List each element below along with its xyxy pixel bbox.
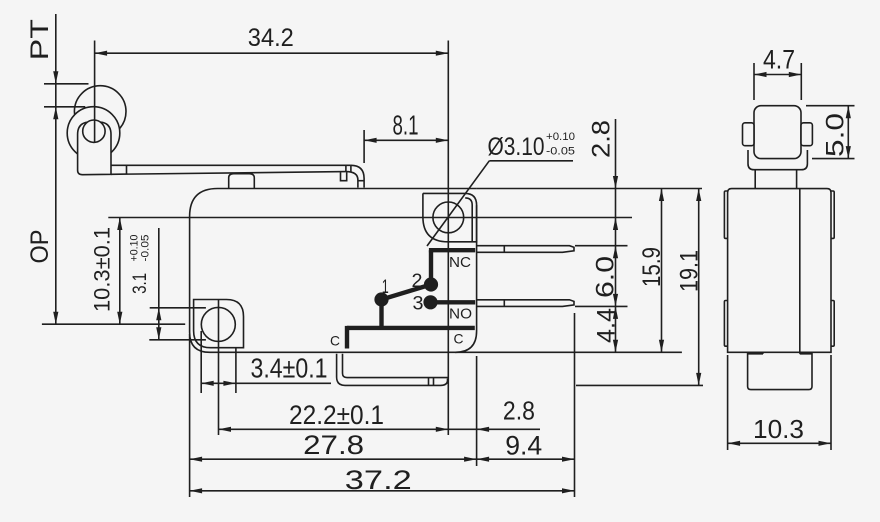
svg-text:3.4±0.1: 3.4±0.1 [251, 353, 328, 384]
mounting hole H1 (diam 3.10) [433, 202, 464, 233]
dimension 19.1 [676, 189, 704, 386]
svg-text:27.8: 27.8 [303, 430, 364, 460]
extension line terminal tips [574, 313, 576, 497]
leader line to hole H1 [427, 161, 489, 246]
label C left [330, 332, 340, 348]
svg-text:3: 3 [413, 293, 424, 314]
mounting ear (bottom left) [194, 300, 244, 348]
svg-text:C: C [330, 332, 340, 348]
wire node2 riser [429, 250, 433, 284]
label diameter 3.10 [488, 131, 576, 161]
extension line roller center [94, 41, 96, 144]
dimension 2.8 (top) [588, 119, 619, 246]
extension line NO bottom [575, 305, 628, 307]
svg-text:3.1: 3.1 [130, 273, 151, 294]
side body tab right top [831, 191, 834, 238]
side body tab left bottom [724, 301, 727, 347]
extension line side body left [727, 355, 729, 450]
svg-text:C: C [454, 330, 464, 346]
plunger pin under lever [341, 172, 347, 181]
svg-text:15.9: 15.9 [638, 247, 666, 287]
bracket bottom extension line [576, 384, 703, 386]
svg-text:6.0: 6.0 [592, 256, 620, 298]
svg-text:8.1: 8.1 [393, 110, 419, 141]
extension line roller right [800, 63, 802, 100]
extension line side body right [830, 355, 832, 450]
terminal NC [477, 246, 574, 253]
side view lever strap [748, 150, 807, 170]
side view cover split line [799, 189, 801, 353]
extension line hole H2 right [235, 348, 237, 393]
dimension 6.0 [592, 246, 620, 307]
side view lever side plate right [801, 123, 812, 146]
svg-text:4.4: 4.4 [593, 308, 621, 343]
svg-text:PT: PT [26, 19, 54, 60]
PT tick upper [44, 83, 89, 85]
dimension 10.3 [728, 414, 831, 446]
wire NO bar [431, 300, 476, 304]
svg-text:37.2: 37.2 [345, 465, 412, 495]
OP line [42, 323, 185, 325]
svg-text:NO: NO [449, 305, 472, 322]
label 3 [413, 293, 424, 314]
dimension 34.2 [95, 24, 449, 56]
svg-text:2.8: 2.8 [588, 120, 616, 158]
PT tick lower [44, 106, 85, 108]
label NC [449, 254, 471, 271]
side body tab right bottom [831, 301, 834, 347]
terminal C bracket [337, 354, 448, 386]
side view terminal block [748, 352, 812, 389]
dimension 3.4+-0.1 [201, 353, 331, 386]
svg-text:4.7: 4.7 [763, 45, 795, 75]
svg-text:-0.05: -0.05 [546, 146, 575, 158]
dimension 4.4 [593, 306, 621, 352]
dimension 15.9 [638, 189, 666, 353]
dimension 10.3+-0.1 [90, 218, 123, 325]
dimension 37.2 [190, 465, 575, 495]
dimension 8.1 [364, 110, 448, 143]
switch blade wire 1-2 [382, 285, 432, 300]
label NO [449, 305, 472, 322]
svg-text:NC: NC [449, 254, 471, 271]
svg-text:OP: OP [26, 230, 54, 264]
dimension 27.8 [190, 430, 477, 462]
extension line roller left [753, 63, 755, 100]
lever joint tick near holder [126, 165, 128, 174]
label C right [454, 330, 464, 346]
lever end tick 1 [345, 165, 347, 171]
extension line hole H2 center vertical [218, 300, 220, 436]
dimension 5.0 [821, 106, 851, 159]
svg-text:10.3±0.1: 10.3±0.1 [90, 227, 115, 312]
roller free position circle [74, 86, 126, 138]
common bar wire [347, 326, 475, 330]
svg-text:10.3: 10.3 [753, 414, 804, 444]
wire node1 to common bar [379, 300, 383, 328]
node 1 [375, 293, 388, 306]
node 3 [424, 296, 437, 309]
lever tip split line [358, 180, 364, 182]
label PT [26, 19, 54, 60]
wire common drop [345, 326, 349, 349]
dimension line PT/OP vertical [53, 14, 58, 324]
roller R (operating position) [67, 107, 120, 160]
extension line body right [476, 356, 478, 466]
dimension 3.1 [129, 228, 162, 340]
mounting ear (top right) [423, 193, 477, 241]
extension line NC top [575, 245, 628, 247]
svg-text:19.1: 19.1 [676, 250, 704, 292]
svg-text:-0.05: -0.05 [140, 235, 152, 262]
side view body [728, 189, 831, 353]
node 2 [425, 278, 438, 291]
switch body S1 outline [190, 189, 477, 353]
terminal NO [477, 300, 574, 307]
svg-text:9.4: 9.4 [505, 431, 542, 461]
lever arm top edge [111, 164, 351, 166]
extension line roller bottom [812, 158, 855, 160]
label 1 [382, 277, 389, 298]
lever bend inner edge [346, 172, 358, 188]
dimension 2.8 (bottom) [448, 396, 540, 432]
svg-text:22.2±0.1: 22.2±0.1 [289, 400, 384, 430]
plunger button [229, 174, 255, 189]
svg-text:Ø3.10: Ø3.10 [488, 133, 545, 161]
body top extension line [477, 188, 702, 190]
side body tab left top [724, 191, 727, 238]
label 2 [412, 271, 423, 292]
svg-text:+0.10: +0.10 [546, 131, 575, 143]
body bottom extension line [455, 351, 682, 353]
side view lever side plate left [743, 123, 755, 146]
roller axle hole [83, 120, 105, 142]
side view stem right edge [796, 171, 798, 189]
side view roller [754, 106, 801, 159]
lever roller holder plate [78, 122, 111, 175]
hole H1 horizontal center line [108, 217, 632, 219]
extension/center line hole H1 vertical [447, 41, 449, 436]
label OP [26, 230, 54, 264]
lever arm bottom edge [111, 172, 346, 175]
svg-text:1: 1 [382, 277, 389, 298]
lever bend outer edge [351, 165, 364, 187]
dimension 9.4 [477, 431, 575, 462]
extension line lever bend [363, 130, 365, 163]
side view stem left edge [754, 171, 756, 189]
extension line body left [189, 334, 191, 497]
dimension 4.7 [754, 45, 801, 78]
svg-text:2.8: 2.8 [503, 396, 535, 426]
extension line roller top [806, 105, 855, 107]
extension line hole H2 bottom [149, 339, 206, 341]
wire NC bar [429, 248, 475, 252]
dimension 22.2+-0.1 [219, 400, 449, 432]
extension line hole H2 left [200, 331, 202, 393]
extension line hole H2 top [150, 307, 206, 309]
svg-text:5.0: 5.0 [821, 113, 849, 157]
mounting hole H2 [201, 307, 235, 341]
svg-text:2: 2 [412, 271, 423, 292]
mounting ear inner wall [465, 198, 472, 242]
svg-text:34.2: 34.2 [248, 24, 294, 52]
lever end tick 2 [350, 165, 352, 171]
